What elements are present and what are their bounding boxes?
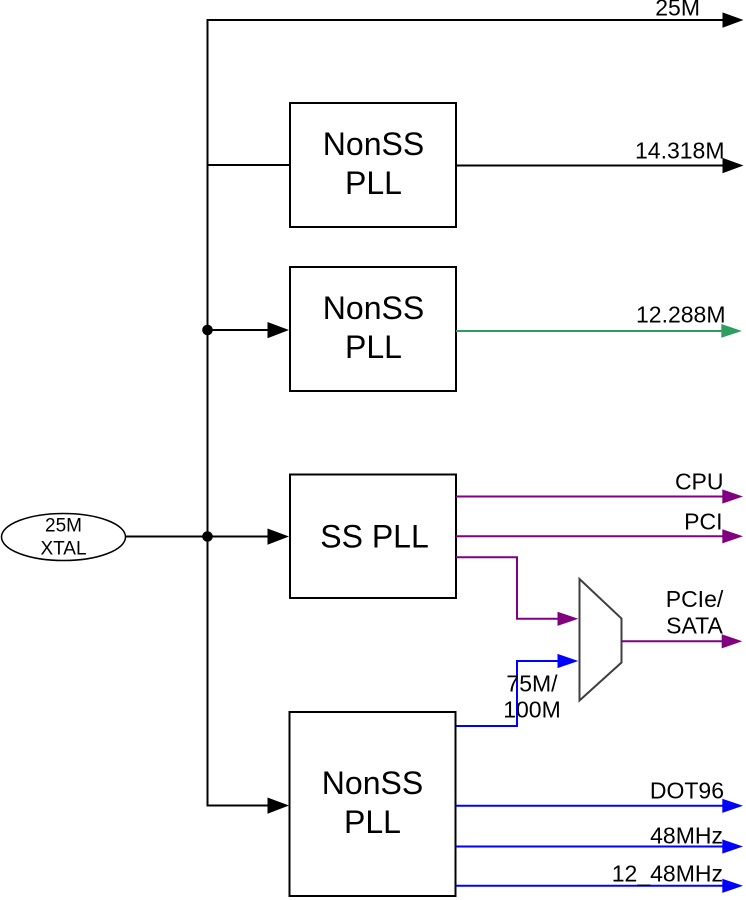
arrowhead mux purple input — [558, 612, 579, 626]
svg-text:NonSS: NonSS — [322, 765, 423, 801]
svg-text:SS PLL: SS PLL — [320, 518, 429, 554]
wire PCI output (purple) — [456, 535, 724, 537]
svg-text:SATA: SATA — [666, 613, 723, 639]
wire input to NonSS PLL U4 (bus elbow) — [208, 805, 270, 806]
arrowhead DOT96 — [722, 799, 743, 813]
arrowhead input U4 — [268, 798, 290, 814]
arrowhead PCIe/SATA — [722, 634, 743, 648]
svg-text:XTAL: XTAL — [40, 539, 86, 560]
oscillator 25M XTAL — [2, 514, 126, 561]
svg-text:DOT96: DOT96 — [650, 778, 724, 804]
wire CPU output (purple) — [456, 496, 724, 498]
wire input to NonSS PLL U2 — [208, 329, 270, 331]
svg-text:NonSS: NonSS — [323, 126, 424, 162]
wire input to NonSS PLL U1 — [207, 164, 291, 166]
arrowhead 12.288M — [721, 324, 742, 338]
block NonSS PLL U4 — [290, 712, 456, 896]
svg-text:PLL: PLL — [345, 165, 402, 201]
wire DOT96 output (blue) — [456, 805, 725, 807]
svg-text:48MHz: 48MHz — [650, 823, 723, 849]
block NonSS PLL U1 — [290, 103, 456, 227]
wire 48MHz output (blue) — [456, 846, 725, 848]
svg-text:PCIe/: PCIe/ — [666, 586, 724, 612]
arrowhead mux blue input — [558, 654, 579, 668]
svg-text:NonSS: NonSS — [323, 290, 424, 326]
wire vertical bus from 25M XTAL — [207, 19, 209, 806]
arrowhead 14.318M — [723, 158, 744, 173]
wire 14.318M output — [456, 165, 724, 167]
arrowhead 25M — [723, 12, 744, 27]
svg-text:CPU: CPU — [675, 468, 724, 494]
arrowhead input U3 — [268, 529, 290, 545]
arrowhead PCI — [722, 529, 743, 543]
block NonSS PLL U2 — [290, 267, 456, 391]
svg-text:25M: 25M — [655, 0, 700, 21]
svg-text:PLL: PLL — [344, 804, 401, 840]
svg-text:75M/: 75M/ — [506, 671, 558, 697]
arrowhead CPU — [722, 489, 743, 503]
wire SS PLL to mux (purple elbow) — [456, 557, 559, 619]
svg-text:12_48MHz: 12_48MHz — [612, 860, 723, 886]
block SS PLL U3 — [290, 475, 456, 599]
arrowhead 48MHz — [722, 839, 743, 853]
svg-text:PCI: PCI — [684, 509, 722, 535]
svg-text:PLL: PLL — [345, 329, 402, 365]
wire 12.288M output (green) — [456, 330, 723, 332]
arrowhead 12_48MHz — [722, 879, 743, 893]
wire 75M/100M to mux (blue elbow) — [456, 661, 559, 726]
svg-text:100M: 100M — [503, 696, 561, 722]
wire 12_48MHz output (blue) — [456, 885, 725, 887]
wire input to SS PLL U3 — [208, 536, 270, 538]
wire 25M output (top) — [207, 19, 725, 21]
svg-text:25M: 25M — [45, 516, 82, 537]
arrowhead input U2 — [268, 322, 290, 338]
node junction dot B — [202, 531, 213, 542]
mux M1 — [580, 579, 622, 701]
wire XTAL to bus — [126, 536, 208, 538]
node junction dot A — [202, 325, 213, 336]
svg-text:14.318M: 14.318M — [635, 138, 725, 164]
svg-text:12.288M: 12.288M — [636, 301, 726, 327]
wire PCIe/SATA output (purple) — [622, 640, 725, 642]
